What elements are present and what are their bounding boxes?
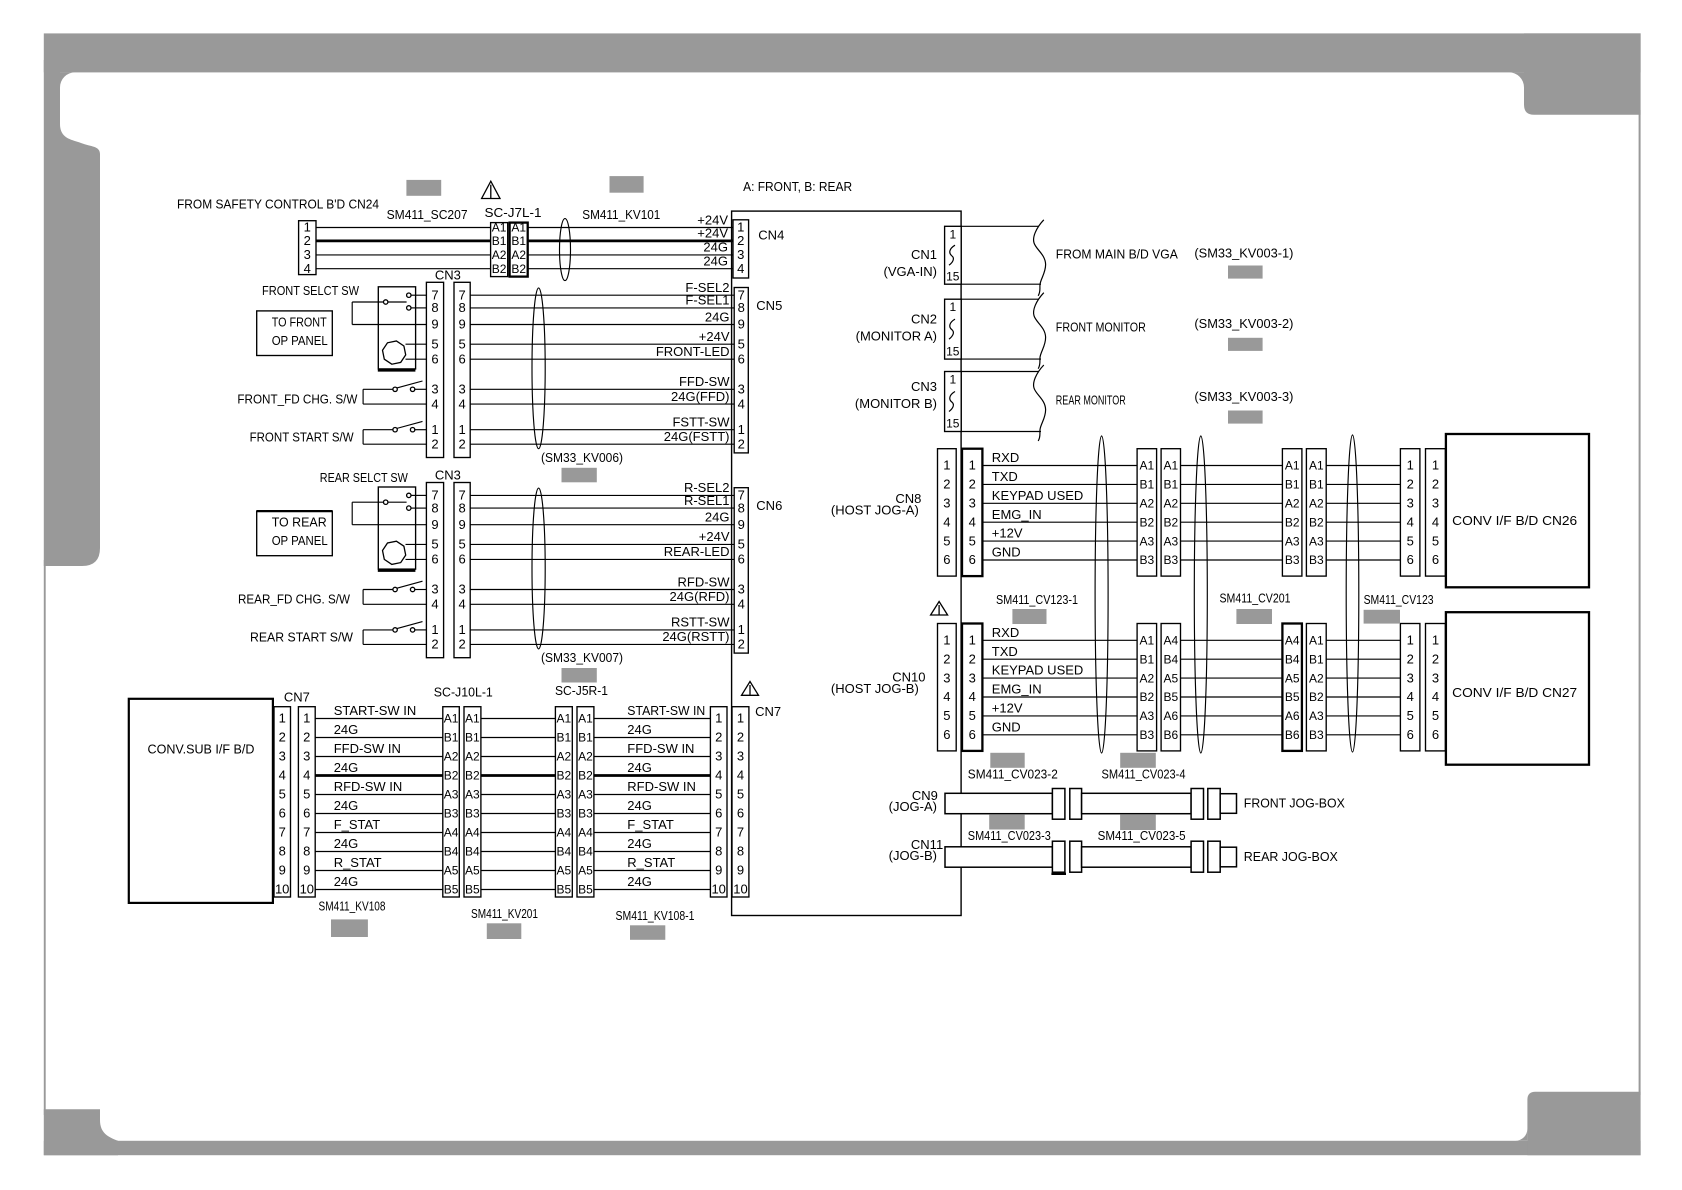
cable ellipse SM411_CV201 (1194, 436, 1207, 753)
svg-text:8: 8 (738, 300, 745, 315)
svg-text:A: FRONT, B: REAR: A: FRONT, B: REAR (743, 179, 852, 194)
svg-text:7: 7 (715, 825, 722, 840)
svg-text:(SM33_KV007): (SM33_KV007) (541, 650, 623, 665)
svg-text:(MONITOR B): (MONITOR B) (855, 396, 937, 411)
svg-text:A5: A5 (1163, 671, 1178, 685)
connector SC-J7L-1 (A1,B1,A2,B2, bold) (510, 221, 528, 277)
svg-text:1: 1 (943, 633, 950, 648)
svg-text:SM411_KV201: SM411_KV201 (471, 906, 538, 921)
svg-text:3: 3 (1407, 496, 1414, 511)
svg-text:5: 5 (1432, 533, 1439, 548)
svg-text:24G: 24G (627, 798, 652, 813)
svg-text:2: 2 (737, 233, 744, 248)
svg-text:3: 3 (737, 749, 744, 764)
svg-text:1: 1 (279, 711, 286, 726)
svg-text:A2: A2 (1163, 497, 1178, 511)
wire RFD-SW IN (CN7-5 row) (315, 794, 710, 796)
cable ellipse SM411_KV101 (560, 219, 571, 281)
connector CN3 (MONITOR B) (855, 372, 961, 432)
connector CN24 (safety control board, pins 1-4) (299, 220, 316, 276)
svg-text:SC-J10L-1: SC-J10L-1 (434, 685, 493, 700)
svg-text:4: 4 (737, 261, 744, 276)
wire KEYPAD USED (CN10-3) (982, 677, 1400, 679)
svg-text:B2: B2 (492, 262, 507, 276)
svg-text:24G(FSTT): 24G(FSTT) (664, 429, 730, 444)
wire R-SEL2 (CN3-7 to CN6-7) (470, 494, 734, 496)
svg-text:A4: A4 (1285, 634, 1300, 648)
svg-text:9: 9 (431, 317, 438, 332)
svg-text:B1: B1 (511, 234, 526, 248)
svg-text:6: 6 (943, 552, 950, 567)
cable ellipse SM411_CV123 (1346, 435, 1359, 752)
svg-text:TXD: TXD (992, 469, 1018, 484)
svg-text:REAR JOG-BOX: REAR JOG-BOX (1244, 849, 1338, 864)
svg-text:4: 4 (1432, 514, 1439, 529)
svg-text:4: 4 (279, 768, 286, 783)
label SM411_KV108-1 with gray tag (616, 908, 695, 940)
svg-text:5: 5 (303, 787, 310, 802)
net labels CN6 signals (662, 480, 730, 644)
svg-text:24G: 24G (334, 874, 359, 889)
svg-text:A4: A4 (1163, 634, 1178, 648)
svg-text:6: 6 (458, 552, 465, 567)
svg-text:4: 4 (737, 768, 744, 783)
svg-text:5: 5 (431, 336, 438, 351)
svg-text:6: 6 (303, 806, 310, 821)
svg-text:15: 15 (946, 344, 960, 358)
wire 24G (CN24-3 / A2 to CN4-3) (316, 254, 733, 256)
wire 24G (CN24-4 / B2 to CN4-4) (316, 268, 733, 270)
label FRONT MONITOR (1056, 320, 1146, 335)
svg-text:B1: B1 (492, 234, 507, 248)
svg-text:B4: B4 (1163, 652, 1178, 666)
switch REAR SELCT SW (selector with lamp) (352, 487, 426, 571)
connector CN11 (JOG-B) jog cable (889, 837, 1237, 874)
svg-text:A2: A2 (1285, 497, 1300, 511)
svg-text:R-SEL1: R-SEL1 (684, 493, 730, 508)
svg-text:CN3: CN3 (911, 379, 937, 394)
svg-text:6: 6 (279, 806, 286, 821)
label REAR MONITOR (1056, 393, 1126, 408)
svg-text:FFD-SW IN: FFD-SW IN (627, 741, 694, 756)
svg-text:6: 6 (431, 552, 438, 567)
svg-text:24G(RFD): 24G(RFD) (670, 589, 730, 604)
svg-text:9: 9 (279, 863, 286, 878)
svg-text:A2: A2 (511, 248, 526, 262)
svg-text:2: 2 (969, 651, 976, 666)
svg-text:1: 1 (737, 711, 744, 726)
wire 24G(RSTT) (CN3-2 to CN6-2) (470, 643, 734, 645)
connector CN6 (main board) (734, 488, 782, 653)
svg-text:6: 6 (969, 727, 976, 742)
svg-text:3: 3 (715, 749, 722, 764)
connector CN7 (main board pair, pins 1-10) (710, 704, 781, 897)
svg-text:5: 5 (738, 336, 745, 351)
svg-text:A3: A3 (556, 788, 571, 802)
svg-text:B3: B3 (1309, 553, 1324, 567)
svg-text:1: 1 (949, 373, 956, 387)
svg-text:2: 2 (279, 730, 286, 745)
svg-text:RFD-SW: RFD-SW (678, 574, 731, 589)
svg-text:A3: A3 (1309, 534, 1324, 548)
svg-text:8: 8 (458, 500, 465, 515)
svg-text:4: 4 (943, 689, 950, 704)
svg-text:A5: A5 (465, 864, 480, 878)
svg-text:GND: GND (992, 545, 1021, 560)
svg-text:(HOST JOG-A): (HOST JOG-A) (831, 503, 919, 518)
svg-text:B5: B5 (444, 883, 459, 897)
connector SM411_SC207 (A1,B1,A2,B2) (491, 221, 508, 277)
board MAIN B/D (KEYPAD/VIDEO) outline (732, 211, 962, 915)
svg-text:B2: B2 (444, 769, 459, 783)
svg-text:B1: B1 (444, 731, 459, 745)
wire 24G (CN7-2 row) (315, 737, 710, 739)
svg-text:SM411_CV023-2: SM411_CV023-2 (968, 767, 1058, 782)
svg-text:9: 9 (303, 863, 310, 878)
wire +24V (CN3-5 to CN5-5) (470, 343, 734, 345)
wire 24G (CN7-8 row) (315, 851, 710, 853)
svg-text:FRONT JOG-BOX: FRONT JOG-BOX (1244, 796, 1345, 811)
svg-text:5: 5 (279, 787, 286, 802)
label REAR JOG-BOX (1244, 849, 1338, 864)
svg-text:4: 4 (1407, 689, 1414, 704)
svg-text:15: 15 (946, 417, 960, 431)
wire 24G (CN7-10 row) (315, 889, 710, 891)
switch FRONT_FD CHG. S/W (237, 381, 426, 407)
svg-text:TXD: TXD (992, 644, 1018, 659)
net labels CN7 signals (right run) (627, 703, 705, 889)
svg-text:+24V: +24V (699, 329, 730, 344)
warning triangle (CN7) (742, 682, 759, 696)
svg-text:A3: A3 (1163, 534, 1178, 548)
svg-text:B2: B2 (511, 262, 526, 276)
connector SC-J10L-1 (pair A1-B5) (434, 685, 493, 898)
svg-text:A2: A2 (444, 750, 459, 764)
wire 24G (CN7-6 row) (315, 813, 710, 815)
board CONV I/F B/D CN27 (1446, 612, 1589, 765)
svg-text:24G: 24G (334, 836, 359, 851)
wire FFD-SW IN (CN7-3 row) (315, 756, 710, 758)
connector pair (cable CN8 left) (1137, 449, 1180, 576)
svg-text:3: 3 (1407, 670, 1414, 685)
label SM411_CV123-1 with gray tag (996, 592, 1078, 624)
svg-text:A5: A5 (444, 864, 459, 878)
svg-text:1: 1 (738, 422, 745, 437)
svg-text:REAR_FD CHG. S/W: REAR_FD CHG. S/W (238, 592, 351, 607)
svg-text:B1: B1 (556, 731, 571, 745)
svg-text:FRONT-LED: FRONT-LED (656, 344, 730, 359)
svg-text:A3: A3 (444, 788, 459, 802)
svg-text:KEYPAD USED: KEYPAD USED (992, 663, 1084, 678)
svg-text:24G: 24G (705, 309, 730, 324)
svg-text:7: 7 (303, 825, 310, 840)
net labels CN8 signals (992, 450, 1084, 559)
svg-text:CN7: CN7 (284, 690, 310, 705)
svg-text:FRONT SELCT SW: FRONT SELCT SW (262, 283, 360, 298)
cable ellipse (SM33_KV006) (532, 288, 545, 449)
svg-text:SM411_SC207: SM411_SC207 (387, 207, 468, 222)
svg-text:4: 4 (715, 768, 722, 783)
wire TXD (CN8-2) (982, 483, 1400, 485)
svg-text:OP PANEL: OP PANEL (272, 533, 328, 548)
svg-text:2: 2 (715, 730, 722, 745)
svg-text:B4: B4 (556, 845, 571, 859)
label SC-J7L-1 (485, 205, 542, 220)
label SM411_CV023-3 with gray tag (968, 814, 1051, 843)
svg-text:B5: B5 (465, 883, 480, 897)
svg-text:A5: A5 (578, 864, 593, 878)
svg-text:(MONITOR A): (MONITOR A) (856, 329, 937, 344)
svg-text:4: 4 (304, 261, 311, 276)
wire FRONT-LED (CN3-6 to CN5-6) (470, 358, 734, 360)
svg-text:1: 1 (431, 422, 438, 437)
connector pair (cable CN10 left) (1137, 624, 1180, 751)
svg-text:FFD-SW IN: FFD-SW IN (334, 741, 401, 756)
cable ellipse (SM33_KV007) (532, 488, 545, 649)
svg-text:CN2: CN2 (911, 312, 937, 327)
svg-text:A3: A3 (1139, 709, 1154, 723)
svg-text:SM411_KV101: SM411_KV101 (582, 207, 660, 222)
svg-text:1: 1 (943, 458, 950, 473)
svg-text:5: 5 (431, 537, 438, 552)
svg-text:B2: B2 (1285, 515, 1300, 529)
svg-text:R_STAT: R_STAT (334, 855, 382, 870)
svg-text:3: 3 (1432, 496, 1439, 511)
svg-text:4: 4 (431, 597, 438, 612)
svg-text:A1: A1 (511, 221, 526, 235)
svg-text:4: 4 (431, 396, 438, 411)
svg-text:24G: 24G (627, 836, 652, 851)
svg-text:9: 9 (737, 863, 744, 878)
svg-text:START-SW IN: START-SW IN (627, 703, 705, 718)
svg-text:SC-J5R-1: SC-J5R-1 (555, 683, 608, 698)
svg-text:1: 1 (458, 622, 465, 637)
svg-text:F_STAT: F_STAT (627, 817, 674, 832)
connector pair (cable CN10 right) (1282, 624, 1326, 751)
svg-text:B4: B4 (465, 845, 480, 859)
svg-text:1: 1 (969, 633, 976, 648)
wire 24G(RFD) (CN3-4 to CN6-4) (470, 603, 734, 605)
svg-text:B1: B1 (1309, 652, 1324, 666)
wire +12V (CN10-5) (982, 715, 1400, 717)
svg-text:A3: A3 (1309, 709, 1324, 723)
svg-text:SM411_KV108-1: SM411_KV108-1 (616, 908, 695, 923)
svg-text:A3: A3 (1285, 534, 1300, 548)
svg-text:B4: B4 (1285, 652, 1300, 666)
note A: FRONT, B: REAR (743, 179, 852, 194)
svg-text:+24V: +24V (697, 226, 728, 241)
svg-text:2: 2 (1407, 477, 1414, 492)
board CONV.SUB I/F B/D (129, 699, 273, 903)
svg-text:RFD-SW IN: RFD-SW IN (334, 779, 403, 794)
connector pair (CONV I/F side, pins 1-6) (1400, 624, 1445, 751)
svg-text:A1: A1 (1309, 459, 1324, 473)
svg-text:2: 2 (943, 477, 950, 492)
svg-text:A3: A3 (465, 788, 480, 802)
note box TO FRONT OP PANEL (257, 311, 333, 356)
label SM411_CV023-4 with gray tag (1102, 753, 1186, 782)
switch FRONT SELCT SW (selector with lamp) (352, 287, 426, 371)
svg-text:F_STAT: F_STAT (334, 817, 381, 832)
svg-text:B3: B3 (1285, 553, 1300, 567)
svg-text:A6: A6 (1285, 709, 1300, 723)
wire R-SEL1 (CN3-8 to CN6-8) (470, 507, 734, 509)
wire KEYPAD USED (CN8-3) (982, 502, 1400, 504)
wire R_STAT (CN7-9 row) (315, 870, 710, 872)
wire 24G (CN3-9 to CN6-9) (470, 524, 734, 526)
svg-text:24G: 24G (627, 874, 652, 889)
svg-text:A4: A4 (444, 826, 459, 840)
svg-text:B5: B5 (578, 883, 593, 897)
svg-text:RXD: RXD (992, 625, 1019, 640)
connector CN3 (front op panel pair) (426, 268, 470, 458)
wire 24G(FSTT) (CN3-2 to CN5-2) (470, 443, 734, 445)
svg-text:+24V: +24V (699, 529, 730, 544)
svg-text:8: 8 (738, 500, 745, 515)
svg-text:8: 8 (737, 844, 744, 859)
svg-text:A1: A1 (1139, 634, 1154, 648)
svg-text:4: 4 (738, 396, 745, 411)
svg-text:6: 6 (969, 552, 976, 567)
gray tag box (SM33_KV007) (562, 668, 597, 683)
connector CN10 (HOST JOG-B, pins 1-6) (831, 624, 982, 751)
svg-text:CN7: CN7 (755, 704, 781, 719)
svg-text:1: 1 (969, 458, 976, 473)
svg-text:5: 5 (458, 336, 465, 351)
svg-text:FRONT START S/W: FRONT START S/W (250, 429, 355, 444)
svg-text:FRONT MONITOR: FRONT MONITOR (1056, 320, 1146, 335)
svg-text:A1: A1 (1139, 459, 1154, 473)
svg-text:24G: 24G (334, 722, 359, 737)
connector CN7 (conv.sub side pair, pins 1-10) (274, 690, 315, 898)
svg-text:B2: B2 (1309, 515, 1324, 529)
svg-text:10: 10 (711, 882, 725, 897)
svg-text:TO REAR: TO REAR (272, 515, 327, 530)
warning triangle (SC-J7L-1) (482, 181, 500, 198)
svg-text:B1: B1 (1163, 478, 1178, 492)
switch FRONT START S/W (250, 421, 427, 444)
svg-text:8: 8 (431, 300, 438, 315)
svg-text:A1: A1 (465, 712, 480, 726)
svg-text:9: 9 (458, 317, 465, 332)
svg-text:EMG_IN: EMG_IN (992, 507, 1042, 522)
svg-text:B5: B5 (1163, 690, 1178, 704)
svg-text:(SM33_KV003-3): (SM33_KV003-3) (1194, 389, 1293, 404)
svg-text:5: 5 (1432, 708, 1439, 723)
svg-text:6: 6 (1407, 727, 1414, 742)
svg-text:A1: A1 (1309, 634, 1324, 648)
svg-text:4: 4 (969, 689, 976, 704)
svg-text:SM411_CV123: SM411_CV123 (1364, 592, 1434, 607)
label FROM SAFETY CONTROL B'D CN24 (177, 196, 379, 211)
wire +12V (CN8-5) (982, 540, 1400, 542)
svg-text:FFD-SW: FFD-SW (679, 374, 730, 389)
wire FSTT-SW (CN3-1 to CN5-1) (470, 429, 734, 431)
svg-text:6: 6 (1407, 552, 1414, 567)
wire 24G (CN3-9 to CN5-9) (470, 324, 734, 326)
cable CN2 to FRONT MONITOR (961, 293, 1045, 369)
svg-text:4: 4 (943, 514, 950, 529)
svg-text:6: 6 (458, 351, 465, 366)
label SM411_CV023-2 with gray tag (968, 753, 1058, 782)
svg-text:A1: A1 (556, 712, 571, 726)
label SM411_KV101 (582, 207, 660, 222)
svg-text:9: 9 (738, 317, 745, 332)
label FRONT SELCT SW (262, 283, 360, 298)
wire RXD (CN8-1) (982, 465, 1400, 467)
connector pair (CONV I/F side, pins 1-6) (1400, 449, 1445, 576)
svg-text:3: 3 (1432, 670, 1439, 685)
svg-text:B1: B1 (1309, 478, 1324, 492)
svg-text:4: 4 (303, 768, 310, 783)
svg-text:B2: B2 (1139, 690, 1154, 704)
svg-text:A2: A2 (492, 248, 507, 262)
svg-text:CONV I/F B/D CN26: CONV I/F B/D CN26 (1452, 513, 1577, 528)
svg-text:5: 5 (738, 537, 745, 552)
svg-text:24G: 24G (627, 722, 652, 737)
svg-text:4: 4 (969, 514, 976, 529)
svg-text:5: 5 (1407, 708, 1414, 723)
label SM411_CV123 with gray tag (1364, 592, 1434, 624)
svg-text:15: 15 (946, 269, 960, 283)
switch REAR_FD CHG. S/W (238, 581, 426, 607)
connector CN5 (main board) (734, 287, 782, 453)
svg-text:1: 1 (431, 622, 438, 637)
svg-text:START-SW IN: START-SW IN (334, 703, 417, 718)
wire F-SEL1 (CN3-8 to CN5-8) (470, 307, 734, 309)
svg-text:3: 3 (303, 749, 310, 764)
svg-text:3: 3 (431, 382, 438, 397)
svg-text:SM411_CV123-1: SM411_CV123-1 (996, 592, 1078, 607)
svg-text:A4: A4 (578, 826, 593, 840)
svg-text:1: 1 (1432, 633, 1439, 648)
svg-text:5: 5 (737, 787, 744, 802)
svg-text:A2: A2 (465, 750, 480, 764)
connector SC-J5R-1 (pair A1-B5) (555, 683, 608, 897)
svg-text:9: 9 (738, 517, 745, 532)
gray tag box (SM33_KV006) (562, 468, 597, 483)
wire REAR-LED (CN3-6 to CN6-6) (470, 558, 734, 560)
svg-text:5: 5 (969, 708, 976, 723)
cable CN3 to REAR MONITOR (961, 365, 1045, 441)
svg-text:A2: A2 (578, 750, 593, 764)
svg-text:3: 3 (458, 382, 465, 397)
wire RFD-SW (CN3-3 to CN6-3) (470, 589, 734, 591)
svg-text:2: 2 (943, 651, 950, 666)
svg-text:24G: 24G (703, 240, 728, 255)
label (SM33_KV006) (541, 450, 623, 465)
svg-text:CN1: CN1 (911, 247, 937, 262)
svg-text:B4: B4 (578, 845, 593, 859)
svg-text:RXD: RXD (992, 450, 1019, 465)
svg-text:FROM MAIN B/D VGA: FROM MAIN B/D VGA (1056, 246, 1178, 261)
svg-text:SM411_KV108: SM411_KV108 (319, 899, 386, 914)
label SM411_CV023-5 with gray tag (1098, 814, 1186, 843)
svg-text:4: 4 (458, 396, 465, 411)
svg-text:1: 1 (1407, 633, 1414, 648)
wire GND (CN10-6) (982, 734, 1400, 736)
svg-text:RFD-SW IN: RFD-SW IN (627, 779, 696, 794)
svg-text:3: 3 (738, 382, 745, 397)
svg-text:FROM SAFETY CONTROL B'D CN24: FROM SAFETY CONTROL B'D CN24 (177, 196, 379, 211)
svg-text:7: 7 (279, 825, 286, 840)
svg-text:A2: A2 (1139, 497, 1154, 511)
svg-text:3: 3 (738, 582, 745, 597)
svg-text:(JOG-B): (JOG-B) (889, 848, 937, 863)
label (SM33_KV007) (541, 650, 623, 665)
svg-text:B1: B1 (465, 731, 480, 745)
switch REAR START S/W (250, 622, 426, 645)
